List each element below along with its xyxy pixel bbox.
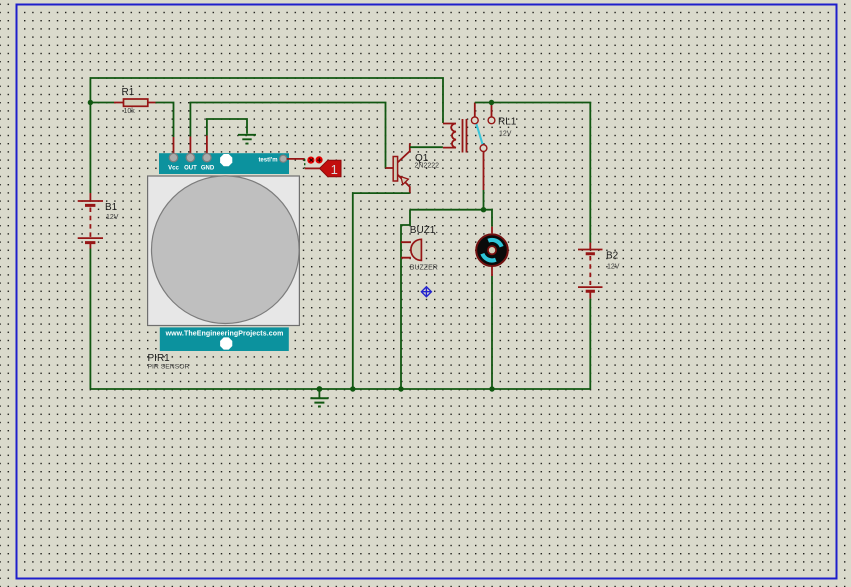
PIR1 body board [148,176,300,326]
svg-text:GND: GND [201,166,215,172]
node junction ground [317,386,323,392]
svg-text:PIR1: PIR1 [148,353,171,364]
wire PIR OUT pin lead [189,137,191,156]
PIR1 pin GND [203,153,211,161]
RL1 switch blade [476,123,483,145]
svg-text:BUZ1.: BUZ1. [410,225,438,236]
svg-text:OUT: OUT [184,166,197,172]
wire B1 to bottom rail [89,249,91,390]
svg-text:RL1: RL1 [498,117,517,128]
wire relay top rail to B2 [475,103,591,243]
RL1 switch stubs [475,103,492,117]
svg-text:2N2222: 2N2222 [415,163,440,170]
PIR1 bottom octagon hole [220,337,232,349]
wire OUT to Q1 base [190,103,385,169]
PIR1 lens circle [152,176,300,324]
svg-text:BUZZER: BUZZER [410,265,438,272]
node junction buzzer [398,386,403,391]
svg-text:R1: R1 [122,87,135,98]
node junction emitter [350,386,355,391]
wire GND pin to ground [207,119,247,136]
svg-text:1: 1 [331,162,338,177]
tag marker 1 [320,160,342,177]
wire motor to bottom rail [491,276,493,389]
indicator dot left [307,157,314,164]
svg-text:12V: 12V [499,131,512,138]
PIR1 top header bar [159,153,289,174]
svg-text:B2: B2 [606,251,619,262]
svg-text:B1: B1 [105,202,118,213]
wire R1 to PIR Vcc pin [156,103,174,138]
transistor Q1 [393,143,439,193]
indicator dot right [316,156,323,163]
relay RL1 [443,103,517,153]
wire B2 to bottom rail [589,299,591,389]
origin marker [421,287,431,297]
battery B2 [578,243,620,299]
svg-text:PIR SENSOR: PIR SENSOR [148,364,190,371]
resistor R1 [114,87,156,115]
wire Q1 emitter to bottom rail [353,193,410,389]
PIR1 pin Vcc [169,153,177,161]
PIR1 bottom bar [160,327,289,351]
ground (near PIR) [238,135,256,144]
battery B1 [78,193,119,249]
wire Q1 collector to relay coil [410,146,443,148]
RL1 coil [443,124,456,148]
svg-text:testl'm: testl'm [258,158,277,164]
wire PIR test pin to tag [287,158,305,160]
PIR1 pin test [280,155,287,162]
ground (bottom rail) [310,389,328,407]
PIR sensor module PIR1 [148,153,300,370]
node junction R1-left [88,100,93,105]
wire Q1 base lead [386,167,394,169]
wire Vcc pin lead [173,137,175,155]
wire left rail and top rail to relay coil [90,78,443,193]
motor fan [476,227,508,276]
node junction motor [489,386,494,391]
PIR1 top octagon hole [220,154,232,166]
wire buzzer motor rail [401,210,492,389]
svg-text:12V: 12V [607,264,620,271]
wire R1 left branch [90,102,114,104]
svg-text:12V: 12V [106,214,119,221]
svg-text:10k: 10k [124,108,136,115]
node junction relay NC stub [489,100,494,105]
RL1 core bars [463,119,467,153]
wire bottom rail [90,388,590,390]
svg-text:Vcc: Vcc [168,166,179,172]
RL1 contact circles [471,117,478,124]
buzzer BUZ1 [401,225,438,272]
wire relay pole down [483,152,485,190]
PIR1 pin OUT [186,153,194,161]
wire PIR GND pin lead [206,136,208,156]
node junction pole-rail [481,207,486,212]
svg-text:www.TheEngineeringProjects.com: www.TheEngineeringProjects.com [165,331,284,338]
